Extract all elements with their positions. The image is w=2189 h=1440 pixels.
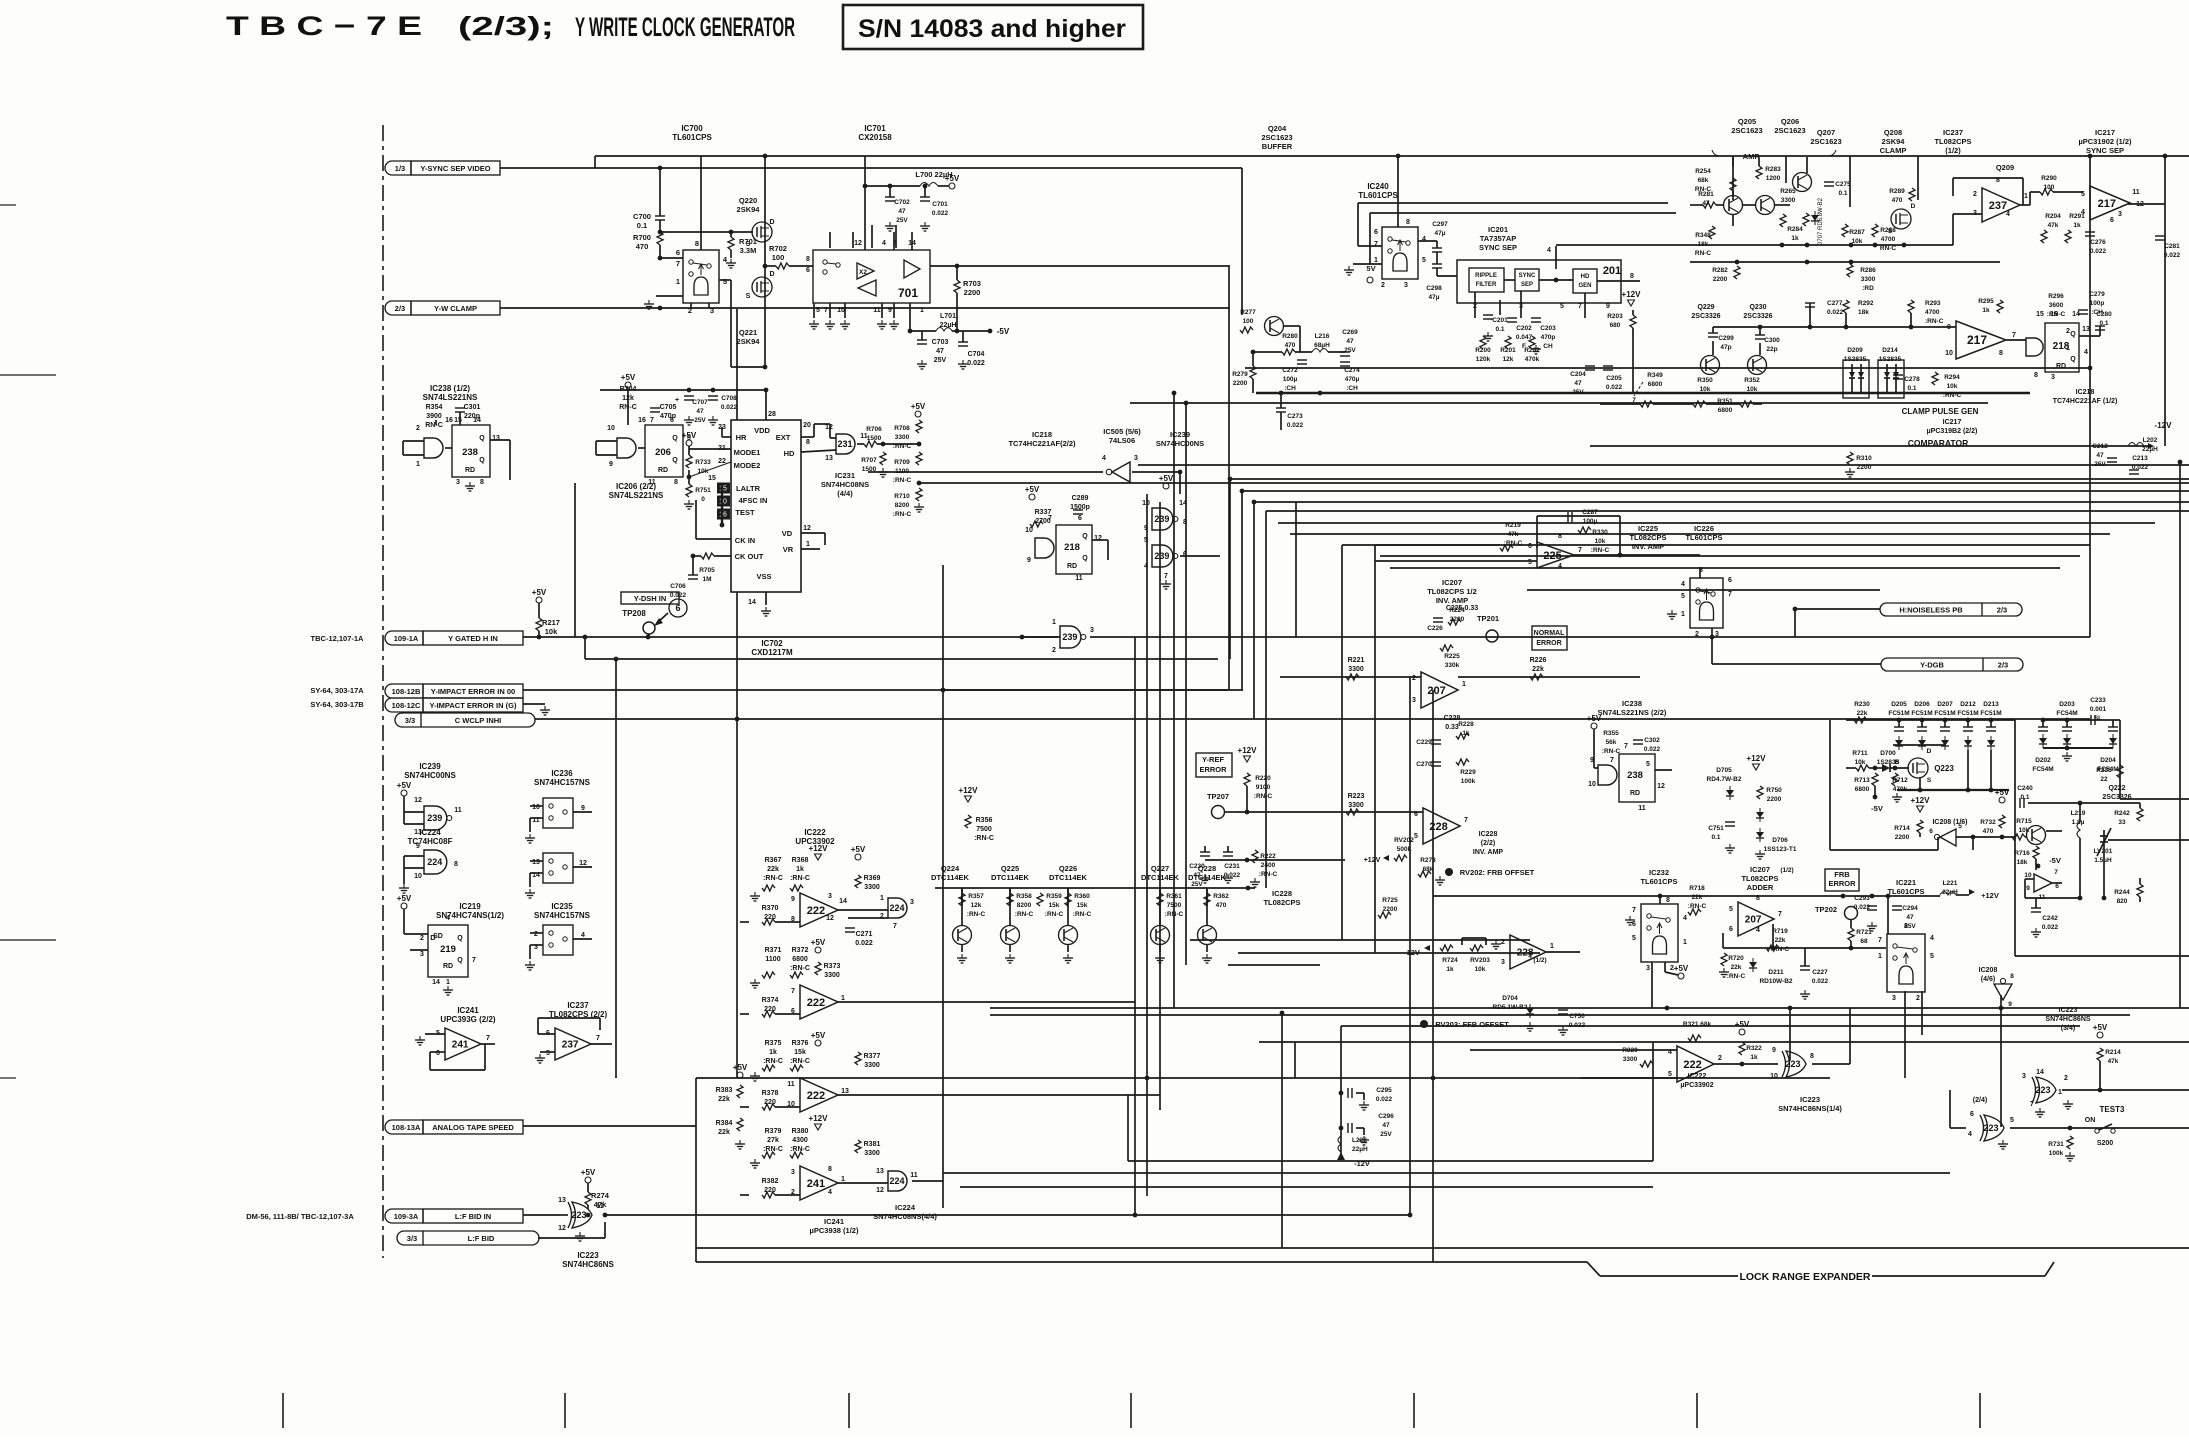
junction [1408, 1213, 1413, 1218]
Y-REF ERROR box [1196, 753, 1232, 777]
bus wire y523 [1278, 522, 2155, 524]
svg-text:+5V: +5V [1674, 964, 1689, 973]
svg-text:SY-64, 303-17B: SY-64, 303-17B [310, 700, 364, 709]
op-amp 237 top [1982, 188, 2020, 222]
wire into 222 pin5 [1580, 1077, 1677, 1079]
wire HR stub [722, 436, 731, 438]
svg-text:47k: 47k [2108, 1058, 2119, 1065]
svg-text:2200: 2200 [1895, 834, 1910, 841]
wire IC201 pin4 [1555, 246, 1557, 269]
svg-text:IC223: IC223 [577, 1251, 599, 1260]
w [1665, 972, 1678, 975]
box edge x1830 [1829, 720, 1831, 850]
mux IC236a box [543, 798, 573, 828]
wire [962, 331, 964, 342]
svg-text:VR: VR [783, 545, 794, 554]
svg-text:D214: D214 [1882, 347, 1898, 354]
svg-text:47k: 47k [2048, 222, 2059, 229]
op-amp 207 mid [1421, 672, 1458, 708]
svg-text:R358: R358 [1016, 893, 1032, 900]
resistor R200 [1480, 336, 1486, 349]
svg-text:2: 2 [534, 931, 538, 938]
svg-text:FC51M: FC51M [1957, 710, 1978, 717]
svg-text:222: 222 [807, 997, 825, 1009]
svg-text:R296: R296 [2048, 293, 2064, 300]
svg-text:8: 8 [1810, 1053, 1814, 1060]
bottom ruler tick x565 [564, 1393, 566, 1428]
svg-text:8: 8 [1558, 533, 1562, 540]
svg-text:D: D [769, 271, 774, 278]
ground Q1160 [1159, 954, 1161, 958]
svg-text:SN74HC86NS: SN74HC86NS [562, 1260, 614, 1269]
ground XOR [579, 1232, 581, 1236]
resistor R254 [1730, 178, 1736, 191]
svg-text:20: 20 [803, 422, 811, 429]
wire [730, 232, 732, 237]
svg-text:6: 6 [1728, 577, 1732, 584]
vertical wire x2165 [2164, 156, 2166, 446]
wire pin1 [656, 295, 683, 297]
svg-text:Q230: Q230 [1749, 304, 1766, 311]
w [1950, 1127, 1966, 1129]
svg-text:10: 10 [1945, 350, 1953, 357]
svg-text:6: 6 [1183, 551, 1187, 558]
AND gate 231 [836, 434, 855, 454]
resistor R282 2200 [1734, 266, 1740, 279]
long bus wire y1026 [1341, 1025, 2080, 1027]
wire L700 left [865, 185, 920, 187]
svg-text:R379: R379 [765, 1128, 782, 1135]
wire VD out [801, 532, 825, 534]
svg-text:IC208 (1/6): IC208 (1/6) [1932, 819, 1967, 826]
w [1846, 767, 1856, 769]
svg-text:6: 6 [1970, 1111, 1974, 1118]
svg-text:7: 7 [1610, 757, 1614, 764]
svg-text:3: 3 [1501, 959, 1505, 966]
bus wire y479 [1230, 478, 2189, 480]
svg-text:TL082CPS: TL082CPS [1263, 898, 1300, 907]
left margin tick y940 [0, 939, 56, 941]
vertical wire x1147 [1146, 494, 1148, 1196]
capacitor C704 0.022 [958, 341, 968, 343]
w [1504, 279, 1515, 281]
w [2042, 720, 2044, 727]
power +12V IC201 [1628, 300, 1635, 306]
junction [1279, 391, 1284, 396]
svg-text:R709: R709 [894, 459, 910, 466]
resistor R374 220 [762, 1011, 775, 1017]
svg-text:C201: C201 [1492, 317, 1508, 324]
AND gate 224b [888, 1171, 907, 1191]
svg-text:UPC393G (2/2): UPC393G (2/2) [440, 1015, 495, 1024]
svg-text:+5V: +5V [811, 938, 826, 947]
svg-text::RN-C: :RN-C [967, 911, 986, 918]
svg-text:8: 8 [2010, 973, 2014, 980]
diode pack D214 [1878, 360, 1904, 398]
vertical x731 [730, 280, 732, 367]
svg-text:10k: 10k [545, 627, 558, 636]
comparator 241 bottom-left [445, 1028, 481, 1060]
svg-text:25V: 25V [2094, 461, 2106, 468]
svg-text:8: 8 [1666, 897, 1670, 904]
w [692, 556, 694, 575]
transistor Q at x1207 [1198, 926, 1217, 945]
svg-text:4700: 4700 [1925, 309, 1940, 316]
IC201 pin2 stub [1474, 292, 1476, 318]
svg-text:5: 5 [1422, 257, 1426, 264]
svg-text:TP201: TP201 [1477, 614, 1499, 623]
diodes inside D209 [1849, 372, 1855, 378]
svg-text:108-12C: 108-12C [392, 701, 421, 710]
svg-text:+5V: +5V [2093, 1023, 2108, 1032]
capacitor C205x [1603, 365, 1613, 367]
ground R701 [730, 259, 732, 263]
bus wire y534 [1290, 533, 2110, 535]
ground C708 [712, 416, 714, 420]
svg-text:IC224: IC224 [419, 828, 441, 837]
NAND gate IC218b [2026, 338, 2043, 356]
svg-text:7: 7 [1048, 515, 1052, 522]
svg-text:+12V: +12V [1981, 891, 1999, 900]
long bus wire y1008 [990, 1007, 2189, 1009]
svg-text:217: 217 [2098, 198, 2116, 210]
power +5V 222a [855, 854, 861, 860]
wire [775, 1194, 800, 1196]
one-shot 218b box [2045, 323, 2079, 372]
power +5V R217 [536, 597, 542, 603]
svg-text:AMP: AMP [1743, 152, 1760, 161]
svg-text:3300: 3300 [824, 972, 840, 979]
ground XOR3 [2039, 1108, 2041, 1112]
svg-text:5: 5 [1646, 761, 1650, 768]
wire XOR out [1812, 1063, 1850, 1065]
svg-text:9: 9 [1027, 557, 1031, 564]
svg-text:4: 4 [1930, 935, 1934, 942]
svg-text:0.022: 0.022 [1812, 978, 1829, 985]
svg-text:1: 1 [880, 895, 884, 902]
svg-text:47: 47 [898, 208, 906, 215]
svg-text:C703: C703 [932, 339, 949, 346]
svg-text:22k: 22k [1731, 964, 1742, 971]
resistor R731 100k [2067, 1136, 2073, 1149]
w [2112, 720, 2114, 727]
svg-text:5: 5 [1560, 303, 1564, 310]
svg-text:2SC1623: 2SC1623 [1261, 133, 1292, 142]
svg-text:R292: R292 [1858, 300, 1874, 307]
w [1227, 846, 1229, 852]
ground C295 [1363, 1101, 1365, 1105]
svg-text:10: 10 [1142, 500, 1150, 507]
junction [1240, 489, 1245, 494]
svg-text:22k: 22k [767, 866, 779, 873]
svg-text:4: 4 [2084, 349, 2088, 356]
svg-text:ERROR: ERROR [1536, 640, 1561, 647]
wire into 239c [1022, 636, 1060, 638]
svg-text::RN-C: :RN-C [1165, 911, 1184, 918]
box top wire y1078 [696, 1077, 1830, 1079]
wire [877, 443, 919, 445]
resistor R702 100 [776, 263, 789, 269]
svg-text:500k: 500k [1397, 846, 1412, 853]
svg-text:R377: R377 [864, 1053, 881, 1060]
resistor R294 [1932, 372, 1938, 385]
power +5V L700 [949, 183, 955, 189]
wire [403, 856, 405, 884]
wire +5V to IC206 [627, 388, 629, 425]
resistor R320 3300 [1640, 1061, 1653, 1067]
wire base [1206, 888, 1208, 925]
svg-text:IC236: IC236 [551, 769, 573, 778]
svg-text:14: 14 [1179, 500, 1187, 507]
w [1253, 351, 1282, 353]
bus wire y545 [1375, 544, 2090, 546]
svg-text:4: 4 [581, 932, 585, 939]
svg-text:C302: C302 [1644, 737, 1660, 744]
svg-text:Y-REF: Y-REF [1202, 755, 1225, 764]
transistor Q206 [1756, 196, 1775, 215]
svg-text:Q224: Q224 [941, 864, 960, 873]
svg-text:IC232: IC232 [1649, 868, 1669, 877]
svg-text:SEP: SEP [1521, 282, 1533, 288]
svg-text:R228: R228 [1458, 721, 1474, 728]
wire C301 [459, 412, 461, 425]
vertical wire Q205 column [1732, 156, 1734, 200]
svg-text:IC219: IC219 [459, 902, 481, 911]
capacitor C705 470p [650, 407, 660, 409]
svg-text:1k: 1k [2073, 222, 2081, 229]
svg-text:+12V: +12V [959, 786, 979, 795]
wire 217 out to gate [2006, 339, 2026, 341]
junction [2163, 154, 2168, 159]
svg-text:SN74HC157NS: SN74HC157NS [534, 911, 591, 920]
diode row bus y720 [1846, 719, 2015, 721]
svg-text:C297: C297 [1432, 221, 1448, 228]
svg-text::RD: :RD [1862, 285, 1874, 292]
svg-text:9: 9 [581, 805, 585, 812]
svg-text:7: 7 [650, 417, 654, 424]
svg-text:R381: R381 [864, 1141, 881, 1148]
resistor R732 470 [1999, 815, 2005, 828]
resistor R220 9100 [1244, 773, 1250, 786]
junction [1252, 500, 1257, 505]
svg-text:222: 222 [807, 1090, 825, 1102]
svg-text:C240: C240 [2017, 785, 2033, 792]
svg-text:4: 4 [446, 915, 450, 922]
svg-text:R229: R229 [1460, 769, 1476, 776]
svg-text:R371: R371 [765, 947, 782, 954]
svg-text:S: S [1927, 777, 1932, 784]
svg-text:25V: 25V [1380, 1131, 1392, 1138]
svg-text:7: 7 [2054, 869, 2058, 876]
svg-text:6800: 6800 [1648, 381, 1663, 388]
svg-text:+5V: +5V [1735, 1020, 1750, 1029]
svg-text:0.022: 0.022 [1827, 309, 1844, 316]
svg-text:-12V: -12V [1404, 948, 1420, 957]
svg-text:C202: C202 [1516, 325, 1532, 332]
w [1436, 252, 1438, 264]
svg-text:8: 8 [1756, 895, 1760, 902]
svg-text::RN-C: :RN-C [1591, 547, 1610, 554]
svg-text:D706: D706 [1772, 837, 1788, 844]
wire [775, 1106, 800, 1108]
svg-text:22p: 22p [1766, 346, 1777, 353]
wire 239b out [1180, 555, 1220, 557]
diode D212 [1966, 718, 1971, 723]
svg-text:680: 680 [1610, 322, 1621, 329]
inverter IC208 (1/6) [1940, 829, 1956, 846]
thick wire Q223 source [1897, 789, 2009, 791]
diode D706b [1756, 832, 1764, 838]
analog switch IC700 [683, 250, 719, 303]
ground R720 [1723, 968, 1725, 972]
svg-text::RN-C: :RN-C [1925, 318, 1944, 325]
svg-text:IC223: IC223 [2059, 1007, 2078, 1014]
wire Q222 collector [2046, 830, 2062, 832]
op-amp 217 lower [1956, 321, 2006, 359]
svg-text:7: 7 [1164, 573, 1168, 580]
w [1653, 403, 1693, 405]
resistor R244 820 [2137, 884, 2143, 897]
svg-text:Q208: Q208 [1884, 128, 1902, 137]
svg-text:1k: 1k [1446, 966, 1454, 973]
XOR gate 223 (2/4) [1980, 1115, 1984, 1141]
svg-text:2: 2 [1718, 1055, 1722, 1062]
svg-text:R705: R705 [699, 567, 715, 574]
svg-text:237: 237 [562, 1040, 579, 1051]
resistor R358 [1007, 893, 1013, 906]
svg-text:10: 10 [414, 873, 422, 880]
svg-text:0.022: 0.022 [1854, 904, 1871, 911]
w [1967, 750, 1969, 790]
resistor R214 47k [2097, 1048, 2103, 1061]
svg-text:Q: Q [2070, 356, 2076, 363]
svg-text:0.022: 0.022 [1606, 384, 1623, 391]
vertical wire x1230 [1229, 479, 1231, 659]
svg-text:7: 7 [1464, 817, 1468, 824]
svg-text::RN-C: :RN-C [2047, 311, 2066, 318]
svg-text:1: 1 [1462, 681, 1466, 688]
w [824, 533, 826, 545]
svg-text:R349: R349 [1647, 372, 1663, 379]
wire 222c out [838, 1094, 1160, 1096]
svg-text:2: 2 [1381, 282, 1385, 289]
svg-text:S: S [746, 241, 751, 248]
junction [583, 635, 588, 640]
svg-text:Y WRITE CLOCK GENERATOR: Y WRITE CLOCK GENERATOR [575, 12, 795, 42]
svg-text:22: 22 [2100, 776, 2108, 783]
svg-text:1: 1 [920, 307, 924, 314]
svg-text:12: 12 [579, 860, 587, 867]
svg-text:C700: C700 [633, 212, 651, 221]
svg-text:R368: R368 [792, 857, 809, 864]
svg-text:RV203: FFB OFFSET: RV203: FFB OFFSET [1435, 1020, 1509, 1029]
diode D207 [1943, 718, 1948, 723]
svg-text:+5V: +5V [733, 1063, 748, 1072]
w [2139, 878, 2141, 884]
NAND gate IC238b [1598, 765, 1617, 785]
svg-text:LOCK RANGE EXPANDER: LOCK RANGE EXPANDER [1739, 1271, 1870, 1283]
ground IC226 [1671, 610, 1673, 614]
vertical wire x575 [574, 483, 576, 637]
svg-text:0.022: 0.022 [2090, 248, 2107, 255]
w [1664, 962, 1666, 972]
svg-text:RD: RD [1630, 790, 1640, 797]
w [1949, 1090, 1951, 1128]
circled 6 marker [669, 599, 687, 617]
ground 701 pin [881, 320, 883, 324]
svg-text::RN-C: :RN-C [763, 1058, 783, 1065]
vertical wire x1229 [1228, 265, 1230, 690]
svg-text:1k: 1k [796, 866, 804, 873]
svg-text:C702: C702 [894, 199, 910, 206]
svg-text:Q: Q [479, 435, 485, 442]
svg-text:D: D [1927, 748, 1932, 755]
capacitor C296 47 25V [1347, 1123, 1349, 1133]
svg-text:13: 13 [558, 1197, 566, 1204]
svg-text:1k: 1k [1982, 307, 1990, 314]
diode D202 D203 [2041, 718, 2046, 723]
diode D204 [2108, 726, 2118, 728]
svg-text:3/3: 3/3 [407, 1234, 417, 1243]
svg-text:12: 12 [1657, 783, 1665, 790]
wire into MODE2 [689, 462, 731, 477]
resistor R283 [1756, 166, 1762, 179]
analog switch IC226 [1690, 578, 1723, 628]
junction [2178, 460, 2183, 465]
w [1956, 894, 1969, 896]
svg-text:R750: R750 [1766, 787, 1782, 794]
w [2080, 802, 2140, 804]
svg-text:3300: 3300 [1861, 276, 1876, 283]
svg-text:25V: 25V [1904, 923, 1916, 930]
junction [1999, 1006, 2004, 1011]
svg-text:CK IN: CK IN [735, 536, 755, 545]
power +5V 239 gates [1163, 483, 1169, 489]
w [1284, 325, 1300, 327]
svg-text:7: 7 [1578, 547, 1582, 554]
ground IC219 [447, 986, 449, 990]
svg-text:1100: 1100 [895, 468, 909, 475]
ground IC224 [403, 884, 405, 888]
w [1742, 204, 1756, 206]
svg-text:R295: R295 [1978, 298, 1994, 305]
ground C230 [1204, 874, 1206, 878]
resistor R321 [1688, 1035, 1701, 1041]
svg-text:R703: R703 [963, 279, 981, 288]
svg-text:5: 5 [2081, 191, 2085, 198]
wire [740, 1194, 749, 1196]
ground 701 pin [844, 320, 846, 324]
wire [403, 812, 405, 824]
svg-text:IC226: IC226 [1694, 524, 1714, 533]
svg-text:100: 100 [1243, 318, 1254, 325]
svg-text:Q223: Q223 [1934, 764, 1954, 773]
svg-text:330k: 330k [1445, 662, 1460, 669]
svg-text:9: 9 [416, 843, 420, 850]
junction [735, 717, 740, 722]
svg-text:239: 239 [1154, 551, 1169, 561]
svg-text:8: 8 [1630, 273, 1634, 280]
junction [1318, 391, 1323, 396]
IC700 pin2 stub [690, 303, 692, 308]
w [1295, 351, 1312, 353]
svg-text:L701: L701 [940, 313, 956, 320]
svg-text:D207: D207 [1937, 701, 1953, 708]
wire to H:NOISELESS PB pill [1795, 608, 1880, 610]
resistor R228 1k [1456, 733, 1469, 739]
svg-text:1k: 1k [1791, 235, 1799, 242]
resistor R361 [1157, 893, 1163, 906]
